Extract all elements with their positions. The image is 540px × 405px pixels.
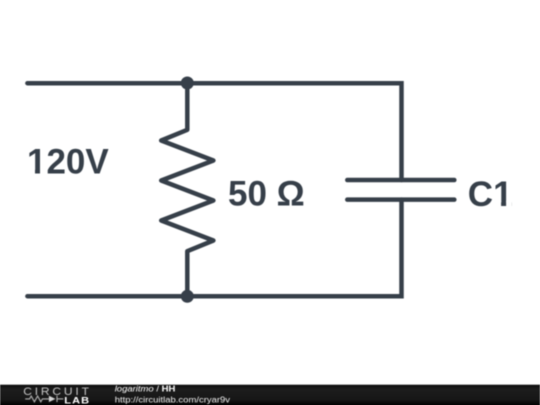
svg-text:LAB: LAB <box>64 396 90 405</box>
svg-text:logaritmo / HH: logaritmo / HH <box>115 384 176 393</box>
svg-text:120V: 120V <box>27 142 109 181</box>
svg-text:C1: C1 <box>468 175 513 214</box>
svg-text:http://circuitlab.com/cryar9v: http://circuitlab.com/cryar9v <box>115 395 231 404</box>
svg-text:50 Ω: 50 Ω <box>228 175 305 214</box>
